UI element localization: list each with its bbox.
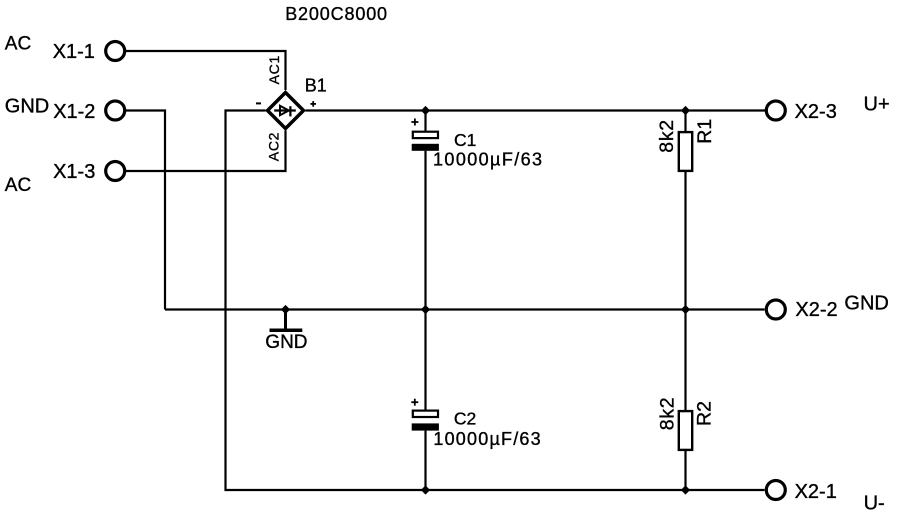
svg-text:GND: GND xyxy=(265,332,307,353)
junction R1-R2 mid xyxy=(681,305,690,314)
svg-text:10000µF/63: 10000µF/63 xyxy=(433,429,541,449)
svg-text:B200C8000: B200C8000 xyxy=(285,4,388,24)
wire R1 pin top xyxy=(684,111,686,132)
bridge plus sign xyxy=(310,101,316,107)
svg-text:AC: AC xyxy=(5,33,31,54)
svg-text:X2-1: X2-1 xyxy=(795,481,837,503)
svg-text:U-: U- xyxy=(864,492,885,514)
svg-text:C2: C2 xyxy=(454,409,476,429)
wire C1 pin top xyxy=(424,111,426,132)
C1 plus mark xyxy=(411,119,418,126)
svg-text:GND: GND xyxy=(5,96,49,118)
svg-text:U+: U+ xyxy=(864,93,890,115)
svg-text:R1: R1 xyxy=(694,119,716,144)
junction GND stub xyxy=(281,305,290,314)
junction R2 bottom xyxy=(681,485,690,494)
capacitor C1 xyxy=(412,132,439,151)
svg-text:X2-2: X2-2 xyxy=(795,299,837,321)
svg-text:10000µF/63: 10000µF/63 xyxy=(433,149,543,169)
terminal X2-1 xyxy=(766,481,785,500)
terminal X1-1 xyxy=(106,42,125,61)
svg-text:8k2: 8k2 xyxy=(656,119,678,153)
wire bridge minus to U- rail xyxy=(226,111,765,491)
wire R1 pin bottom xyxy=(684,172,686,310)
wire C2 pin top xyxy=(424,310,426,411)
svg-text:AC: AC xyxy=(5,175,31,196)
resistor R2 xyxy=(679,411,692,450)
junction C1-C2 mid xyxy=(421,305,430,314)
wire C1 pin bottom xyxy=(424,151,426,310)
terminal X2-3 xyxy=(766,101,785,120)
bridge minus sign xyxy=(256,102,261,104)
wire X1-1 to bridge AC1 xyxy=(126,51,286,90)
svg-text:X1-3: X1-3 xyxy=(53,161,95,183)
resistor R1 xyxy=(679,132,692,171)
junction C1 top xyxy=(421,106,430,115)
junction R1 top xyxy=(681,106,690,115)
svg-text:8k2: 8k2 xyxy=(657,397,679,431)
svg-text:X1-2: X1-2 xyxy=(53,101,95,123)
svg-text:X1-1: X1-1 xyxy=(53,41,95,63)
svg-text:AC1: AC1 xyxy=(266,55,282,84)
svg-text:C1: C1 xyxy=(454,130,476,150)
svg-text:GND: GND xyxy=(844,292,888,314)
svg-text:B1: B1 xyxy=(305,76,327,96)
terminal X1-2 xyxy=(106,101,125,120)
wire X1-3 to bridge AC2 xyxy=(126,131,286,172)
wire GND rail xyxy=(165,308,765,310)
junction C2 bottom xyxy=(421,485,430,494)
svg-text:R2: R2 xyxy=(694,401,716,426)
wire R2 pin bottom xyxy=(684,451,686,490)
terminal X2-2 xyxy=(766,300,785,319)
ground symbol xyxy=(270,310,303,331)
wire C2 pin bottom xyxy=(424,431,426,490)
svg-text:AC2: AC2 xyxy=(265,132,281,161)
wire R2 pin top xyxy=(684,310,686,411)
wire bridge plus to X2-3 U+ rail xyxy=(306,109,766,111)
terminal X1-3 xyxy=(106,162,125,181)
C2 plus mark xyxy=(411,399,418,406)
svg-text:X2-3: X2-3 xyxy=(795,101,837,123)
wire X1-2 to GND rail xyxy=(126,111,165,310)
capacitor C2 xyxy=(412,411,439,431)
bridge rectifier B1 xyxy=(268,93,304,129)
